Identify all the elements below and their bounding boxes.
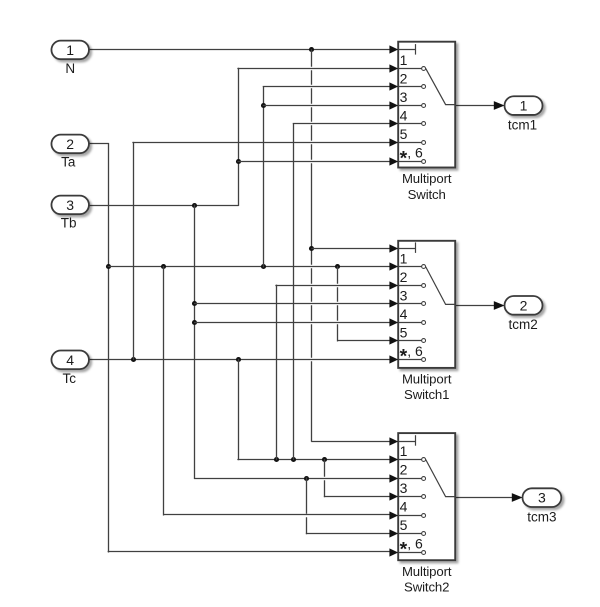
svg-text:1: 1 [400,250,408,266]
junction: Tc branch down to Switch2 port3 [322,457,327,462]
junction: N branch to Switch1 control [309,246,314,251]
svg-text:2: 2 [400,71,408,87]
svg-text:2: 2 [520,297,528,313]
junction: Tb branch down to Switch2 port5 [304,476,309,481]
wire: N output port1 oval to Multiport Switch control, horizontal [89,49,391,51]
svg-text:Multiport: Multiport [402,372,452,387]
wire: Tb vertical down to Switch2 port5 [306,478,308,513]
svg-text:Switch2: Switch2 [404,580,449,595]
Multiport Switch switch arm [426,68,456,104]
svg-text:4: 4 [400,499,408,515]
wire: Ta vertical down to Switch1 port5 [337,267,339,283]
block Multiport Switch body [398,42,455,168]
wire: Ta vertical to Switch2 port4 [163,267,165,515]
Multiport Switch data port 4 contact [398,123,421,125]
wire: Tb horizontal into Switch port1 [238,68,391,70]
svg-text:2: 2 [400,269,408,285]
Multiport Switch1 switch arm [426,267,456,305]
svg-text:3: 3 [400,287,408,303]
wire: Tc horizontal into Switch1 port2 [276,285,391,287]
wire: Ta horizontal into Switch port2 [263,86,390,88]
Multiport Switch input arrowheads [389,45,398,53]
junction: Tc branch up to Switch1 port2 [274,457,279,462]
wire: Tc horizontal into Switch port4 [293,123,390,125]
wire: N vertical feed to Switch1/Switch2 control [311,50,313,66]
svg-text:3: 3 [400,480,408,496]
Multiport Switch2 data port 4 contact [398,515,421,517]
svg-text:tcm1: tcm1 [508,117,537,132]
Multiport Switch2 data port 3 contact [398,496,421,498]
wire: Tc oval horizontal into Switch1 port6 [89,359,391,361]
wire: Tb horizontal into Switch2 port5 [307,533,391,535]
svg-text:1: 1 [66,42,74,58]
junction: Ta branch to Switch port3 [261,103,266,108]
Multiport Switch data port 6 contact [398,161,421,163]
wire: Ta main vertical [108,144,110,552]
svg-text:1: 1 [520,98,528,114]
svg-text:3: 3 [538,490,546,506]
inport 2 (Ta) [51,135,88,154]
wire: Ta horizontal to Switch1 port1 [108,266,390,268]
block Multiport Switch2 body [398,433,455,560]
wire: Tc horizontal into Switch port5 [133,142,391,144]
junction: Ta branch up to Switch port2/port3 [261,264,266,269]
svg-text:Switch: Switch [408,187,446,202]
svg-text:2: 2 [66,136,74,152]
junction: Tc branch up to Switch port4 [291,457,296,462]
wire: Tb vertical up to Switch port1 [238,68,240,205]
wire: Switch1 output to tcm2 [455,305,494,307]
junction: Ta branch down to Switch1 port5 [335,264,340,269]
svg-text:4: 4 [400,306,408,322]
Multiport Switch2 data port 5 contact [398,533,421,535]
svg-text:1: 1 [400,443,408,459]
outport 3 (tcm3) [523,488,562,507]
Multiport Switch2 data port 1 contact [398,459,421,461]
svg-text:Ta: Ta [61,155,76,170]
Multiport Switch1 input arrowheads [389,244,398,252]
svg-text:Switch1: Switch1 [404,387,449,402]
wire: Ta horizontal into Switch2 port4 [164,514,391,516]
wire: Ta horizontal into Switch port3 [263,105,390,107]
wire: Tb horizontal into Switch1 port3 [195,303,391,305]
Multiport Switch data port 1 contact [398,68,421,70]
wire: Tc vertical down to Switch2 port3 [324,460,326,477]
wire: Ta vertical up to Switch port2 [263,87,265,267]
Multiport Switch1 data port 3 contact [398,303,421,305]
svg-text:tcm3: tcm3 [527,509,556,524]
Multiport Switch1 data port 1 contact [398,266,421,268]
wire: N to Switch1 control horizontal [312,248,391,250]
block Multiport Switch1 body [398,241,455,368]
wire: Tb main vertical down [194,205,196,478]
wire: Tb horizontal into Switch port6 [238,161,391,163]
svg-text:4: 4 [66,352,74,368]
outport 1 (tcm1) [505,96,543,115]
junction: Tb branch to Switch1 port4 [192,320,197,325]
Multiport Switch2 control port line with tick [398,441,415,443]
junction: Ta split at y266.7 [106,264,111,269]
Multiport Switch2 data port 2 contact [398,478,421,480]
wire: Tc vertical up to Switch1 port2 [276,285,278,459]
wire: Tc vertical down to Switch2 port1 row [238,360,240,460]
junction: Tc branch down [236,357,241,362]
wire: Tc horizontal into Switch2 port1 [238,459,391,461]
Multiport Switch2 data port 6 contact [398,552,421,554]
junction: Tb branch to Switch port6 [236,159,241,164]
svg-text:Tc: Tc [63,371,77,386]
wire: Tb horizontal into Switch1 port4 [195,322,391,324]
wire: Tc vertical up to Switch port4 [293,124,295,460]
svg-text:1: 1 [400,52,408,68]
inport 4 (Tc) [51,351,88,370]
inport 1 (N) [51,41,88,60]
Multiport Switch1 control port line with tick [398,248,415,250]
wire: Switch output to tcm1 [455,105,494,107]
svg-text:4: 4 [400,108,408,124]
junction: Tb branch to Switch1 port3 [192,301,197,306]
svg-text:2: 2 [400,462,408,478]
junction: Tb split down [192,203,197,208]
outport 2 (tcm2) [505,296,543,315]
Multiport Switch1 data port 2 contact [398,285,421,287]
Multiport Switch2 switch arm [426,460,456,497]
Multiport Switch1 data port 6 contact [398,359,421,361]
inport 3 (Tb) [51,196,88,215]
svg-text:3: 3 [400,89,408,105]
wire: Ta oval stub [89,143,109,145]
junction: Ta branch down to Switch2 port4 [161,264,166,269]
wire: Ta horizontal into Switch2 port6 [108,551,390,553]
wire: Tc horizontal into Switch2 port3 [325,496,391,498]
wire: Switch2 output to tcm3 [455,497,512,499]
wire: Tc vertical up [133,143,135,360]
svg-text:Multiport: Multiport [402,171,452,186]
svg-text:Multiport: Multiport [402,564,452,579]
Multiport Switch1 data port 4 contact [398,322,421,324]
junction: N split to lower switches [309,47,314,52]
svg-text:5: 5 [400,126,408,142]
wire: N to Switch2 control horizontal [312,441,391,443]
Multiport Switch1 data port 5 contact [398,340,421,342]
wire: Ta horizontal into Switch1 port5 [338,340,391,342]
junction: Tc branch up to Switch port5 [131,357,136,362]
svg-text:5: 5 [400,517,408,533]
Multiport Switch data port 5 contact [398,142,421,144]
Multiport Switch data port 2 contact [398,86,421,88]
svg-text:5: 5 [400,324,408,340]
svg-text:3: 3 [66,197,74,213]
svg-text:N: N [65,61,75,76]
svg-text:Tb: Tb [61,216,77,231]
Multiport Switch data port 3 contact [398,105,421,107]
wire: Tb horizontal into Switch2 port2 [195,478,391,480]
Multiport Switch control port line with tick [398,49,415,51]
svg-text:tcm2: tcm2 [508,317,537,332]
wire: Tb oval horizontal [89,205,238,207]
Multiport Switch2 input arrowheads [389,437,398,445]
